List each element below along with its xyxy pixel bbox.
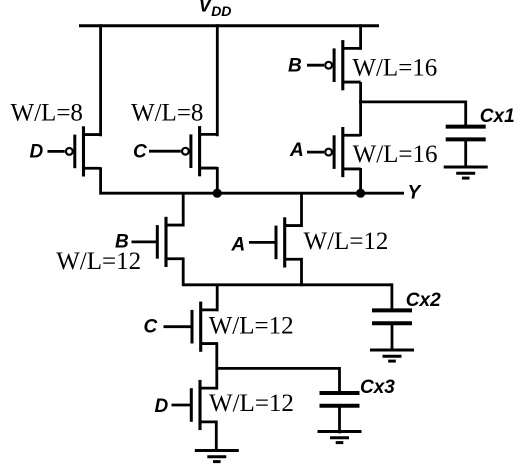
- svg-text:W/L=16: W/L=16: [353, 141, 438, 168]
- nmos D (W/L=12): [172, 380, 217, 430]
- nmos B (W/L=12): [132, 217, 184, 267]
- wire Y to A-NMOS drain: [300, 193, 303, 227]
- svg-text:W/L=8: W/L=8: [11, 100, 83, 127]
- svg-text:C: C: [144, 317, 158, 338]
- wire A-PMOS drain up: [359, 101, 362, 137]
- svg-text:Cx3: Cx3: [360, 377, 395, 398]
- junction dot C/Y: [213, 189, 221, 197]
- nmos A (W/L=12): [249, 217, 302, 267]
- svg-text:Cx2: Cx2: [406, 290, 441, 311]
- wire Cx2 drop: [390, 283, 393, 310]
- pmos D (W/L=8): [48, 126, 101, 176]
- junction dot A/Y: [357, 189, 365, 197]
- wire A-PMOS source down: [359, 168, 362, 195]
- ground (Cx3): [318, 432, 362, 443]
- svg-text:W/L=12: W/L=12: [209, 313, 294, 340]
- svg-text:VDD: VDD: [199, 0, 232, 19]
- pmos B (W/L=16): [307, 40, 361, 90]
- svg-text:W/L=12: W/L=12: [56, 248, 141, 275]
- svg-text:C: C: [133, 142, 147, 163]
- wire D-NMOS source to ground: [215, 421, 218, 451]
- node Y rail: [101, 192, 404, 195]
- svg-text:Cx1: Cx1: [480, 106, 515, 127]
- wire B-PMOS source down: [359, 82, 362, 103]
- svg-text:D: D: [155, 396, 169, 417]
- svg-text:Y: Y: [408, 183, 423, 204]
- capacitor Cx3: [320, 393, 360, 433]
- node rail to Cx3: [217, 367, 340, 370]
- svg-text:W/L=12: W/L=12: [304, 228, 389, 255]
- svg-text:A: A: [289, 140, 304, 161]
- svg-text:W/L=12: W/L=12: [209, 390, 294, 417]
- wire B-NMOS source down: [182, 257, 185, 286]
- pmos A (W/L=16): [307, 127, 361, 177]
- wire Y to B-NMOS drain: [182, 193, 185, 226]
- svg-text:W/L=16: W/L=16: [352, 55, 437, 82]
- capacitor Cx2: [372, 310, 412, 350]
- node rail to Cx2: [183, 283, 392, 286]
- nmos C (W/L=12): [164, 302, 218, 352]
- wire VDD to B-PMOS drain: [359, 24, 362, 50]
- wire VDD to D-PMOS drain: [99, 24, 102, 136]
- ground (Cx2): [370, 350, 414, 361]
- svg-text:D: D: [30, 142, 44, 163]
- wire node to C-NMOS drain: [216, 285, 219, 312]
- svg-text:W/L=8: W/L=8: [131, 100, 203, 127]
- svg-text:B: B: [288, 56, 302, 77]
- pmos C (W/L=8): [149, 126, 217, 176]
- wire Cx1 drop: [464, 101, 467, 128]
- svg-text:A: A: [231, 235, 246, 256]
- wire Cx3 drop: [338, 367, 341, 393]
- capacitor Cx1: [446, 127, 486, 167]
- wire VDD to C-PMOS drain: [216, 24, 219, 136]
- wire C-PMOS source down: [216, 167, 219, 195]
- ground (D nmos): [195, 451, 239, 462]
- wire D-PMOS source down: [99, 167, 102, 194]
- wire A-NMOS source down: [300, 258, 303, 286]
- ground (Cx1): [444, 167, 488, 178]
- VDD power rail: [79, 24, 379, 27]
- wire C-NMOS source to D-NMOS drain: [215, 342, 218, 389]
- wire node to Cx1: [359, 101, 466, 104]
